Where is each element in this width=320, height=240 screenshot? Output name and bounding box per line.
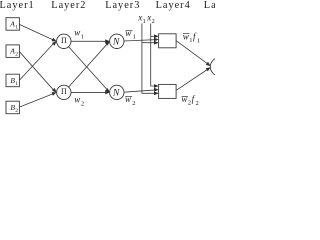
wire B1 to P1 [20,42,55,80]
svg-text:2: 2 [132,100,135,107]
norm node N2 [110,85,124,99]
svg-text:2: 2 [15,108,18,114]
wire N1 to box F1 (wbar1) [124,40,158,41]
svg-text:2: 2 [188,100,191,107]
box A1 [6,18,19,31]
box B1 [6,74,19,87]
svg-text:2: 2 [15,52,18,58]
wire x1 branch to box F1 [142,42,158,44]
svg-text:w: w [125,94,131,104]
arrowhead into P1 [52,38,58,43]
svg-text:w: w [74,95,80,105]
wire A2 to P2 [20,52,55,92]
svg-text:w: w [183,31,189,41]
wire N2 to box F2 (wbar2) [124,90,158,92]
svg-text:N: N [112,38,120,48]
svg-text:w: w [181,94,187,104]
arrowhead into N1 [105,39,110,43]
svg-text:1: 1 [15,81,18,87]
wire P2 to N2 [71,91,109,93]
wire B2 to P2 [20,93,55,107]
arrowhead into P2 [52,88,58,94]
wire box F2 to sum [176,68,209,90]
svg-text:Layer4: Layer4 [156,0,191,11]
box A2 [6,45,19,58]
wire P2 to N1 [69,42,109,87]
svg-text:1: 1 [81,33,84,40]
wire x1 vertical [142,24,158,94]
wire box F1 to sum [176,41,209,66]
box B2 [6,101,19,114]
wire P1 to N1 [71,40,109,42]
label wbar1 [126,30,133,32]
label wbar1 f1 [183,32,189,34]
svg-text:1: 1 [197,37,200,44]
svg-text:w: w [74,27,80,37]
box F1 (layer4 top) [159,34,177,48]
label wbar2 [125,96,132,98]
svg-text:Π: Π [61,36,67,45]
label wbar2 f2 [182,95,188,97]
svg-text:1: 1 [143,18,146,25]
svg-text:2: 2 [152,18,155,25]
svg-text:Π: Π [61,87,67,96]
sum node (right edge, clipped) [210,58,228,76]
svg-text:1: 1 [15,24,18,30]
svg-text:w: w [125,28,131,38]
norm node N1 [110,34,124,48]
svg-text:1: 1 [133,34,136,41]
wire P1 to N2 [69,47,109,92]
wire x2 branch to box F1 [151,35,158,37]
svg-text:N: N [112,89,120,99]
op node P2 (Pi circle) [57,85,71,99]
svg-text:Layer2: Layer2 [51,0,86,11]
svg-text:2: 2 [81,101,84,108]
svg-text:Layer1: Layer1 [0,0,35,11]
wire A1 to P1 [20,25,55,41]
svg-text:1: 1 [189,37,192,44]
arrowhead into N2 [105,91,110,95]
wire x2 vertical [151,24,158,87]
svg-text:Layer5: Layer5 [204,0,215,11]
svg-text:2: 2 [196,100,199,107]
op node P1 (Pi circle) [57,34,71,48]
svg-text:Layer3: Layer3 [105,0,140,11]
box F2 (layer4 bottom) [159,84,177,98]
